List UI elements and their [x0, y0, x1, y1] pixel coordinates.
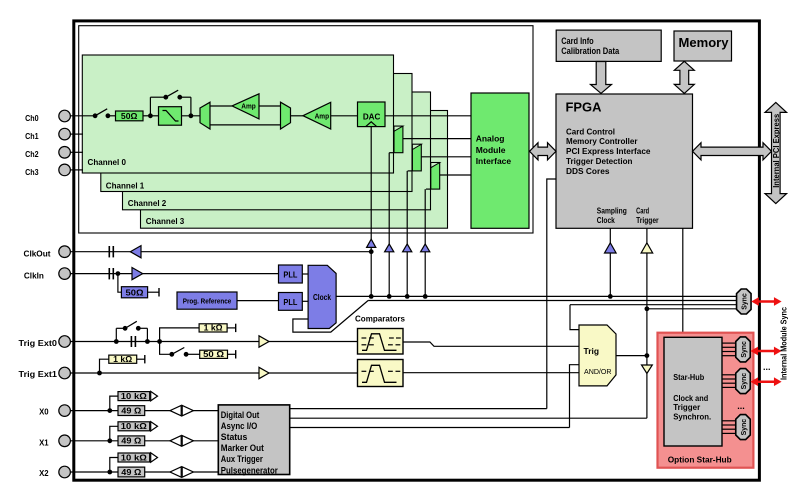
- svg-text:10 kΩ: 10 kΩ: [121, 453, 147, 462]
- svg-text:X2: X2: [39, 468, 49, 478]
- svg-text:10 kΩ: 10 kΩ: [121, 422, 147, 431]
- svg-text:Card Control: Card Control: [566, 126, 615, 136]
- svg-text:49 Ω: 49 Ω: [121, 468, 141, 477]
- svg-text:...: ...: [737, 401, 745, 411]
- svg-text:Channel 2: Channel 2: [128, 198, 167, 208]
- svg-text:X0: X0: [39, 407, 49, 417]
- svg-text:Star-Hub: Star-Hub: [673, 372, 704, 382]
- svg-text:Internal PCI Express: Internal PCI Express: [772, 113, 781, 188]
- svg-text:Sync: Sync: [739, 373, 748, 390]
- svg-text:Pulsegenerator: Pulsegenerator: [221, 465, 278, 475]
- svg-text:10 kΩ: 10 kΩ: [121, 392, 147, 401]
- svg-text:AND/OR: AND/OR: [584, 367, 612, 376]
- svg-text:Memory Controller: Memory Controller: [566, 136, 638, 146]
- svg-text:Analog: Analog: [476, 134, 505, 144]
- svg-text:Internal Module Sync: Internal Module Sync: [779, 307, 789, 380]
- svg-text:Sync: Sync: [739, 341, 748, 358]
- svg-text:ClkIn: ClkIn: [24, 271, 44, 281]
- svg-text:DAC: DAC: [363, 111, 381, 121]
- svg-text:Channel 0: Channel 0: [88, 157, 127, 167]
- svg-text:Module: Module: [476, 145, 506, 155]
- svg-text:Comparators: Comparators: [355, 314, 405, 324]
- svg-text:Sync: Sync: [739, 419, 748, 436]
- svg-text:...: ...: [763, 362, 771, 372]
- svg-text:Ch3: Ch3: [25, 167, 39, 177]
- svg-text:Card Info: Card Info: [561, 36, 594, 46]
- svg-text:Marker Out: Marker Out: [221, 443, 264, 453]
- svg-text:Trigger: Trigger: [636, 215, 659, 225]
- svg-text:Ch2: Ch2: [25, 149, 39, 159]
- svg-text:Digital Out: Digital Out: [221, 410, 259, 420]
- svg-text:Trig Ext0: Trig Ext0: [19, 338, 58, 348]
- svg-text:Trig Ext1: Trig Ext1: [19, 369, 58, 379]
- svg-text:Channel 3: Channel 3: [146, 216, 185, 226]
- svg-text:49 Ω: 49 Ω: [121, 437, 141, 446]
- svg-text:X1: X1: [39, 437, 49, 447]
- svg-text:1 kΩ: 1 kΩ: [113, 355, 132, 364]
- svg-text:Synchron.: Synchron.: [673, 411, 711, 421]
- svg-text:50Ω: 50Ω: [121, 112, 138, 121]
- svg-text:Clock: Clock: [313, 292, 331, 302]
- svg-text:Ch1: Ch1: [25, 131, 39, 141]
- svg-text:DDS Cores: DDS Cores: [566, 166, 610, 176]
- svg-text:Trig: Trig: [584, 346, 600, 356]
- svg-text:Clock: Clock: [597, 215, 615, 225]
- svg-text:ClkOut: ClkOut: [24, 248, 51, 258]
- svg-text:Trigger Detection: Trigger Detection: [566, 156, 633, 166]
- svg-text:Option Star-Hub: Option Star-Hub: [668, 454, 732, 464]
- svg-text:Status: Status: [221, 432, 248, 442]
- svg-text:Card: Card: [636, 206, 649, 216]
- svg-text:PLL: PLL: [283, 269, 297, 279]
- svg-text:Calibration Data: Calibration Data: [561, 46, 620, 56]
- svg-text:Channel 1: Channel 1: [106, 180, 145, 190]
- svg-text:Prog. Reference: Prog. Reference: [183, 297, 232, 306]
- svg-text:50Ω: 50Ω: [126, 288, 144, 297]
- svg-text:FPGA: FPGA: [566, 99, 603, 114]
- svg-text:Sync: Sync: [740, 293, 749, 310]
- svg-text:Ch0: Ch0: [25, 113, 39, 123]
- svg-text:Aux Trigger: Aux Trigger: [221, 454, 263, 464]
- svg-text:Amp: Amp: [315, 111, 330, 120]
- svg-text:Sampling: Sampling: [597, 206, 627, 216]
- svg-text:Interface: Interface: [476, 156, 512, 166]
- svg-text:PCI Express Interface: PCI Express Interface: [566, 146, 651, 156]
- svg-text:Async I/O: Async I/O: [221, 421, 257, 431]
- svg-text:49 Ω: 49 Ω: [121, 406, 141, 415]
- svg-text:Memory: Memory: [679, 35, 730, 50]
- svg-text:Amp: Amp: [241, 101, 256, 110]
- svg-text:1 kΩ: 1 kΩ: [204, 324, 223, 333]
- svg-text:50 Ω: 50 Ω: [203, 350, 224, 359]
- svg-text:PLL: PLL: [283, 297, 297, 307]
